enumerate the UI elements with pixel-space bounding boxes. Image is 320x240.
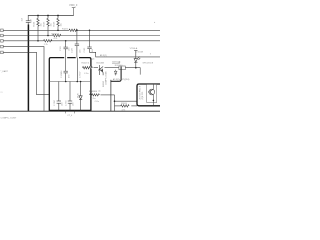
node bus junction dots: [37, 15, 59, 17]
resistor R-bank-3 (x58): [57, 16, 59, 31]
svg-text:BC546B: BC546B: [97, 62, 105, 64]
svg-text:(T)E 330: (T)E 330: [142, 91, 144, 100]
node dot Q-BR emitter: [153, 100, 155, 102]
svg-text:VTB4-A: VTB4-A: [130, 47, 138, 50]
svg-text:COMPS-(7/2)B: COMPS-(7/2)B: [105, 71, 107, 85]
wire line B: [3, 35, 160, 37]
capacitor C-89 drop from line A with wire to right: [87, 30, 160, 57]
svg-text:L GO48: L GO48: [136, 52, 144, 54]
wire W2 extension stub: [136, 68, 140, 75]
svg-text:2.7k: 2.7k: [44, 44, 48, 46]
node dot C-65.7: [65, 40, 67, 42]
node dot divider-77.3: [77, 81, 79, 83]
pin stubs below U-main: [66, 110, 75, 113]
gap in box right edge for resistor crossing: [90, 67, 92, 69]
resistor R-bank-1 (x38): [37, 16, 39, 41]
component box BZT rect: [119, 66, 125, 70]
svg-text:10k: 10k: [51, 23, 53, 26]
node dot divider-80.6: [80, 81, 82, 83]
module box BR (thick rounded, open right): [137, 84, 160, 106]
transistor Q-BR: [148, 84, 155, 102]
svg-text:C.YM7: C.YM7: [54, 99, 56, 106]
power flag VDD_3: [72, 8, 76, 16]
wire line A: [3, 29, 160, 31]
node dot A-58: [57, 30, 59, 32]
node dot divider-65.7: [65, 81, 67, 83]
resistor R-bank-2 (x48): [47, 16, 49, 36]
svg-text:2077-M PRO-8: 2077-M PRO-8: [140, 85, 142, 99]
module box alpha right/bottom edges (rounded): [111, 67, 121, 82]
node dot B-48: [47, 35, 49, 37]
diode D-alpha: [114, 70, 117, 76]
svg-text:C.Ds: C.Ds: [91, 98, 95, 100]
svg-text:BZT/5(2): BZT/5(2): [112, 61, 120, 63]
svg-text:AT-3(2)+(3/7)(2k3): AT-3(2)+(3/7)(2k3): [113, 78, 130, 81]
svg-text:VDD_3: VDD_3: [69, 3, 78, 7]
wire divider inside U-main: [49, 81, 91, 83]
capacitor C-77 drop from line A: [75, 30, 79, 57]
svg-text:10k: 10k: [41, 23, 43, 26]
svg-text:P0: P0: [1, 92, 3, 94]
diode D-in (x80.6): [79, 82, 82, 111]
svg-text:(2): (2): [92, 58, 95, 60]
wire vertical grey rail x111.4: [110, 80, 112, 111]
node tiny mark right-54: [150, 53, 151, 54]
svg-text:R2024 B: R2024 B: [89, 91, 97, 93]
svg-text:C.USD4: C.USD4: [61, 70, 63, 78]
wire Q-BR emitter stub: [152, 103, 154, 106]
svg-text:4.7k: 4.7k: [54, 38, 58, 40]
capacitor C-bot-2 (x70): [68, 82, 72, 111]
svg-text:COMPS_ DUST: COMPS_ DUST: [1, 117, 17, 119]
resistor R-B series (line B): [53, 34, 61, 36]
resistor R2026: [115, 105, 138, 107]
svg-text:R2013 4: R2013 4: [115, 65, 123, 67]
node tiny mark right-22: [154, 22, 155, 23]
resistor R-A series (line A): [69, 29, 77, 31]
node dot W2-133.6: [135, 67, 137, 69]
node dot A-76.9: [76, 30, 78, 32]
capacitor C-65 drop from line C: [64, 41, 68, 58]
transistor Q-mid: [98, 65, 103, 75]
svg-text:C.Ds: C.Ds: [95, 101, 99, 103]
wire line C: [3, 40, 160, 42]
wire bottom bus: [0, 110, 160, 112]
resistor R-C series (line C): [44, 40, 52, 42]
component box Q-BR outline: [147, 84, 157, 102]
node dot W3 junction: [114, 100, 116, 102]
svg-text:GP13-R.1/8: GP13-R.1/8: [143, 63, 154, 65]
wire thick vertical rail: [27, 25, 29, 112]
svg-text:R1223 4: R1223 4: [52, 33, 60, 35]
svg-text:C.Ds: C.Ds: [84, 73, 88, 75]
power flag VTB4-A: [134, 49, 137, 51]
capacitor C-left on bus drop: [26, 16, 31, 25]
wire line E with corner down: [3, 52, 49, 94]
svg-text:R1223 4: R1223 4: [82, 62, 90, 64]
wire pin2 inside box with diode D-in: [76, 58, 78, 82]
wire W1 grey net stub with tick: [112, 62, 120, 64]
pin header boxes left: [1, 29, 4, 54]
resistor R2024 row W3: [90, 94, 115, 111]
node dot A-89.5: [89, 30, 91, 32]
svg-text:10k: 10k: [61, 23, 63, 26]
module box U-main (thick): [49, 58, 91, 111]
capacitor C-bot-1 (x58.8): [57, 82, 61, 111]
wire top power bus: [28, 15, 74, 17]
wire branch to BR box: [115, 100, 138, 102]
svg-text:*_UART: *_UART: [0, 70, 8, 73]
svg-text:AT-3(2): AT-3(2): [100, 54, 107, 57]
LED D-right (vertical at x134): [134, 51, 140, 68]
wire line D with corner down: [3, 47, 44, 112]
wire W2 through BZT: [105, 67, 136, 69]
capacitor C-in-top (x65.7 inside box): [64, 58, 68, 82]
svg-text:C.754: C.754: [65, 100, 67, 106]
resistor R1223-b horizontal into box edge: [83, 67, 99, 69]
svg-text:C.7547: C.7547: [79, 71, 81, 78]
node dot C-38: [37, 40, 39, 42]
svg-text:R2026: R2026: [121, 103, 128, 105]
svg-text:R1221: R1221: [62, 29, 69, 31]
